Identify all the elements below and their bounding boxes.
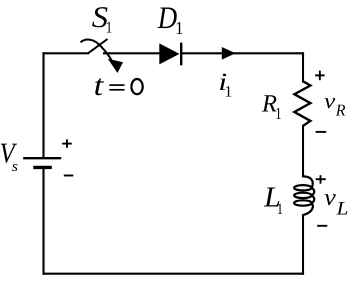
svg-text:v: v	[324, 89, 336, 113]
svg-text:1: 1	[106, 18, 112, 37]
svg-text:R: R	[335, 101, 346, 120]
svg-text:v: v	[324, 185, 336, 211]
svg-text:t: t	[94, 70, 105, 102]
svg-text:1: 1	[225, 83, 233, 100]
svg-text:1: 1	[175, 18, 183, 38]
svg-text:L: L	[335, 198, 348, 219]
svg-text:1: 1	[275, 104, 281, 123]
svg-text:1: 1	[277, 201, 283, 218]
svg-text:s: s	[12, 159, 18, 175]
